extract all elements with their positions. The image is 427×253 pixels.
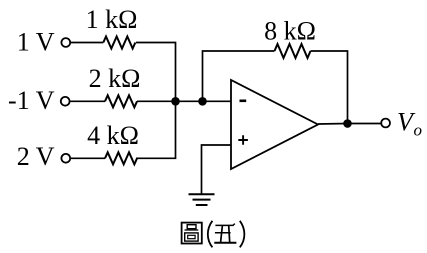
feedback wire up and across xyxy=(203,51,275,101)
wire input2 to R2 xyxy=(69,100,105,102)
wire R2 to op-amp inverting input xyxy=(137,100,231,102)
svg-text:1 kΩ: 1 kΩ xyxy=(86,5,138,34)
non-inverting input wire xyxy=(202,145,232,194)
terminal circle input 1 xyxy=(61,38,70,47)
op-amp U1 triangle xyxy=(231,80,318,169)
caption open paren xyxy=(208,221,213,248)
svg-text:2 kΩ: 2 kΩ xyxy=(89,64,141,93)
junction node inverting input xyxy=(198,97,207,106)
svg-text:o: o xyxy=(414,121,423,140)
minus sign inverting xyxy=(240,100,247,103)
ground symbol xyxy=(189,194,215,205)
wire input3 to R3 xyxy=(70,157,105,159)
resistor R3 4k zigzag xyxy=(105,152,137,164)
terminal circle input 2 xyxy=(61,97,70,106)
plus sign non-inverting xyxy=(238,135,248,145)
output terminal circle xyxy=(381,119,390,128)
svg-text:1 V: 1 V xyxy=(17,28,55,57)
caption glyph wu (five) xyxy=(214,224,236,243)
resistor R1 1k zigzag xyxy=(103,37,135,49)
junction node summing xyxy=(171,97,180,106)
resistor Rf 8k zigzag xyxy=(275,44,311,58)
terminal circle input 3 xyxy=(61,154,70,163)
feedback wire down to output xyxy=(311,51,348,124)
wire input1 to R1 xyxy=(70,42,103,44)
wire R3 to corner up xyxy=(136,101,176,158)
output junction dot xyxy=(343,119,352,128)
svg-text:2 V: 2 V xyxy=(17,142,55,171)
svg-text:4 kΩ: 4 kΩ xyxy=(87,121,139,150)
caption close paren xyxy=(240,221,245,248)
wire R1 to corner xyxy=(136,43,176,102)
resistor R2 2k zigzag xyxy=(105,95,137,107)
output wire xyxy=(318,123,381,126)
caption glyph tu (picture) xyxy=(182,223,202,244)
svg-text:-1 V: -1 V xyxy=(8,86,55,115)
svg-text:8 kΩ: 8 kΩ xyxy=(264,17,316,46)
